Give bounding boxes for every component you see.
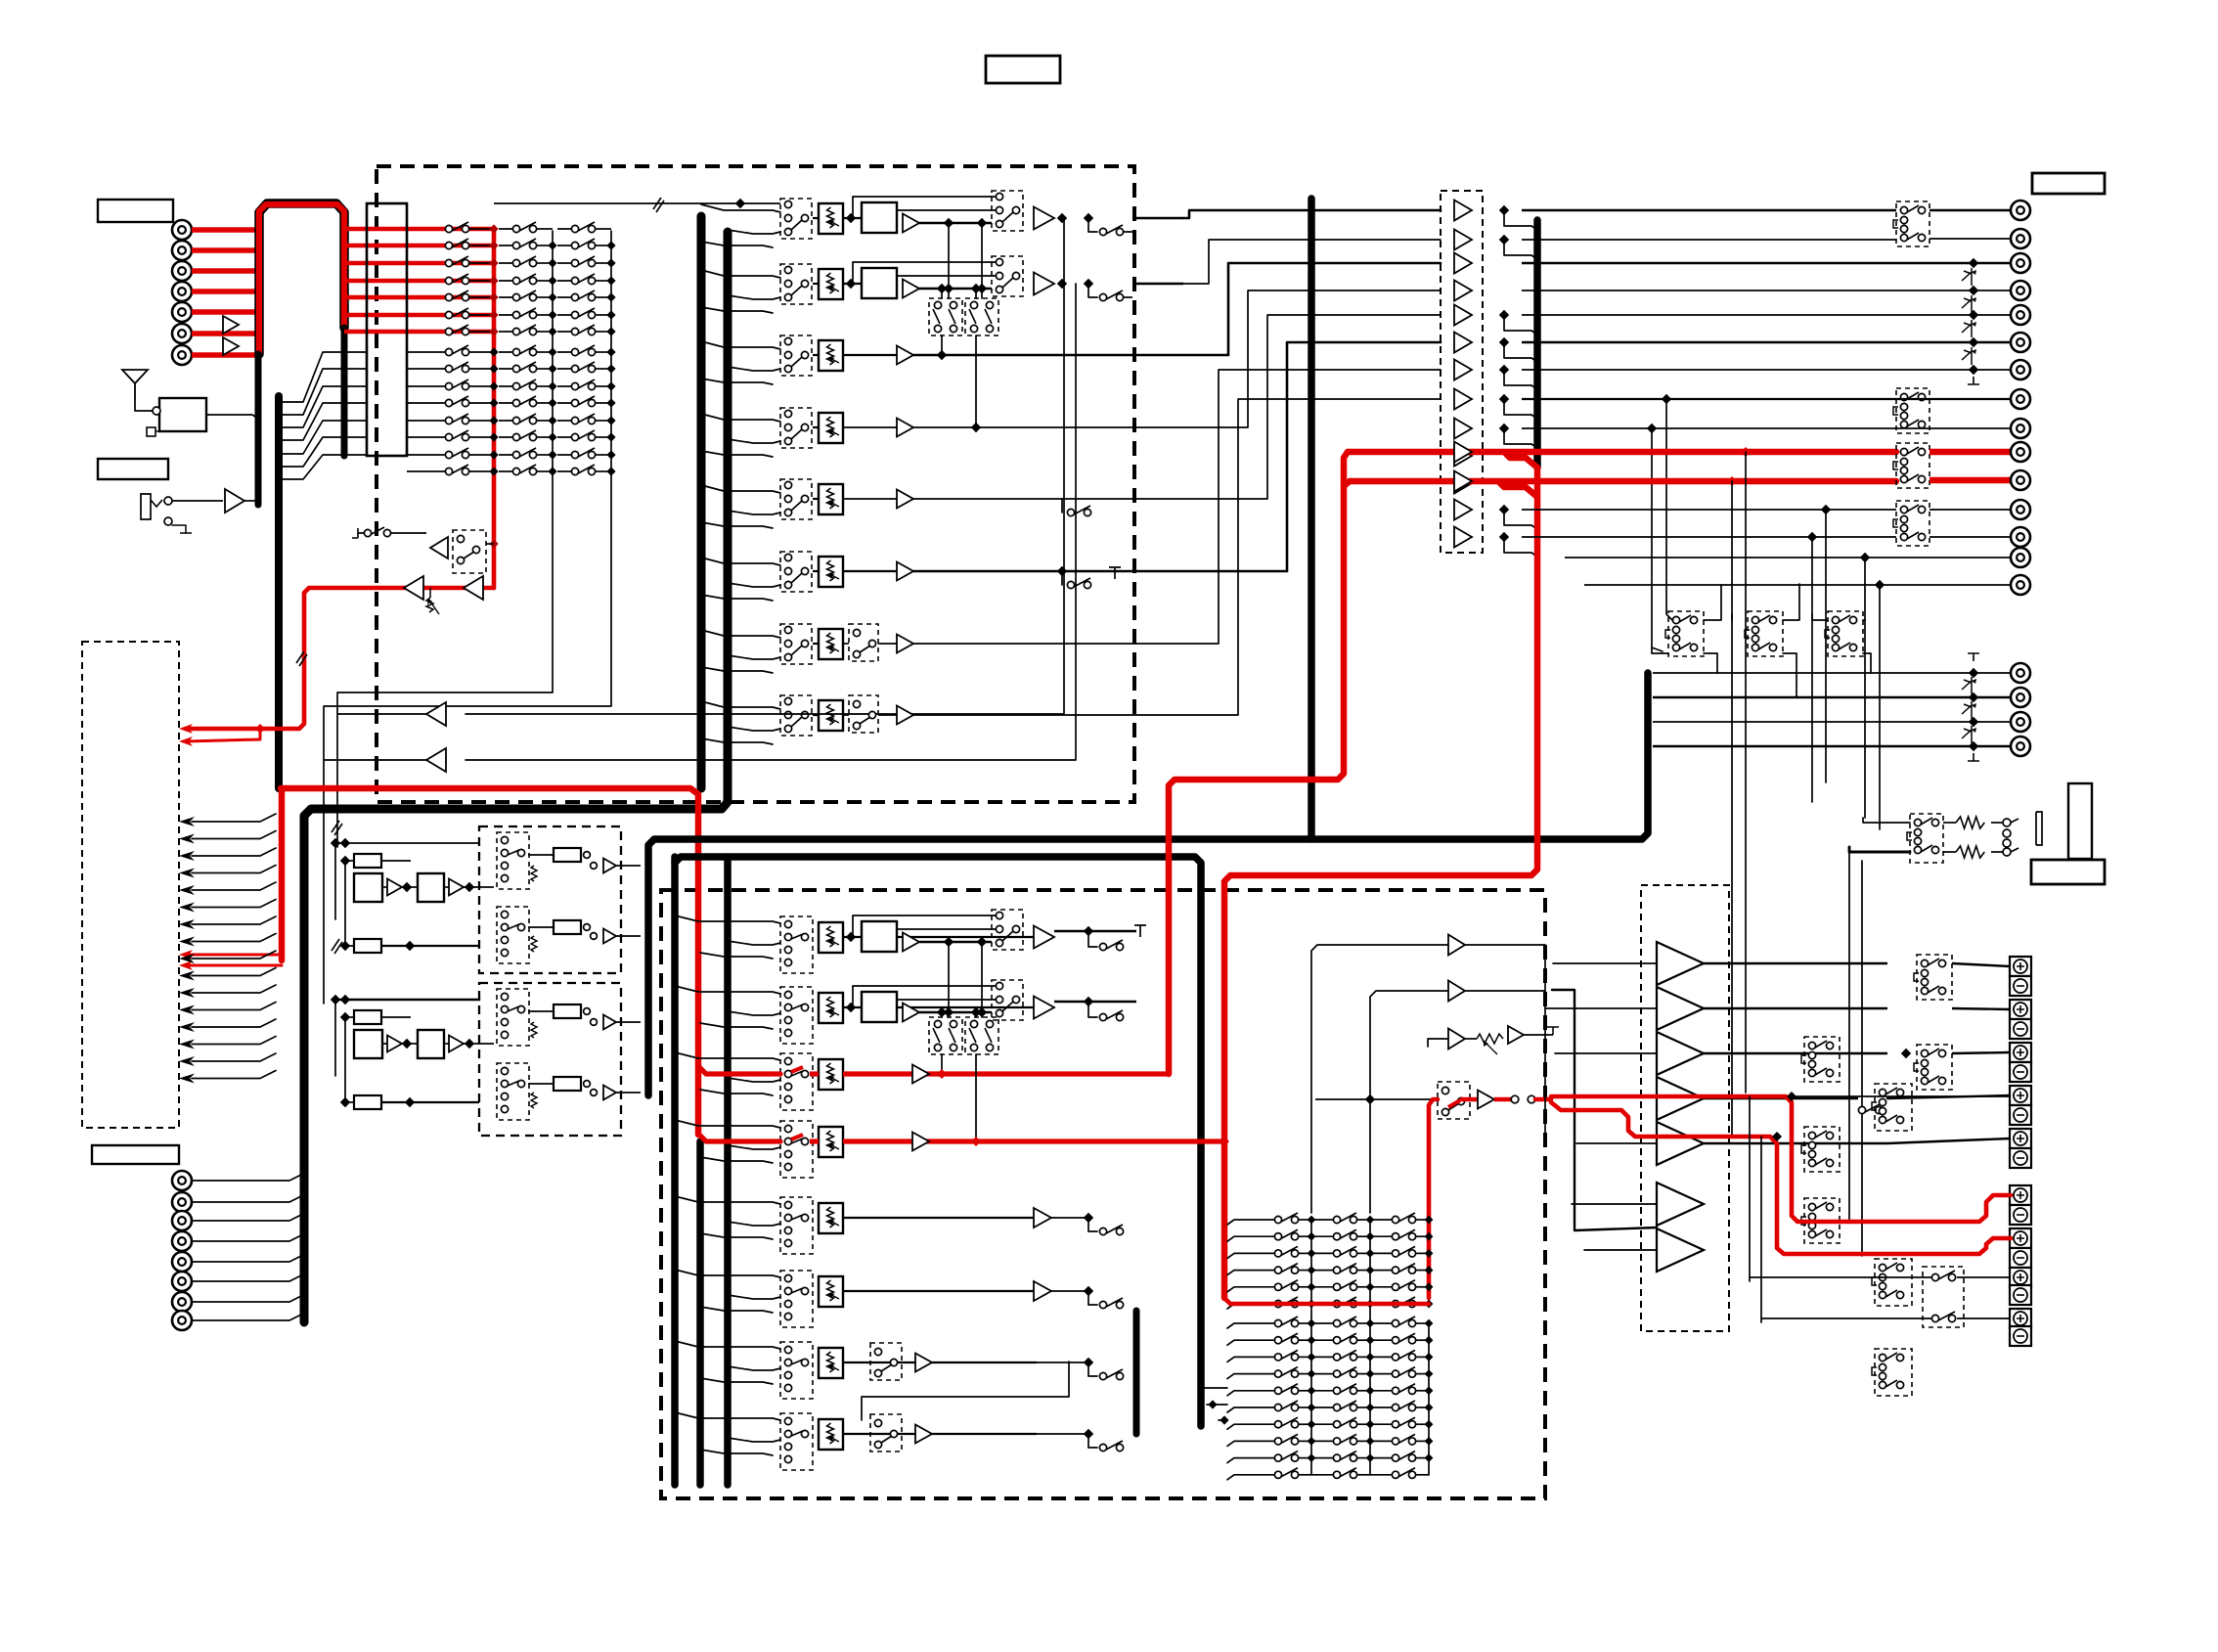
vert tap row9 <box>1652 428 1663 651</box>
F feed line a <box>335 999 479 1002</box>
row6 mute node <box>1057 566 1067 576</box>
G matrix lead r1c2 <box>1370 1235 1392 1237</box>
row2 out node2 <box>1084 279 1093 289</box>
dashed enclosure buffer amp column <box>1441 191 1483 553</box>
G matrix switch r3c0 <box>1274 1267 1281 1273</box>
matrix column 1 switch row 6 <box>445 311 452 318</box>
speaker terminal 8 - <box>2010 1105 2031 1125</box>
bottom selector row 2 feed stubs <box>675 986 780 994</box>
G matrix lead r6c1 <box>1311 1423 1333 1425</box>
G matrix wire r9c1 <box>1357 1474 1370 1476</box>
bottom selector row 7 volume control <box>819 1348 843 1378</box>
dub switch pair 2 <box>965 298 998 335</box>
matrix column 2 switch row 15 <box>499 470 516 472</box>
buffer 9 output node <box>1499 424 1509 433</box>
phones wire a <box>1943 822 1956 824</box>
phones feed c <box>1879 825 1881 829</box>
output jack row 6 <box>2011 333 2030 352</box>
G row5 mute switch <box>1088 1218 1097 1231</box>
red wire sel out <box>1462 1097 1478 1102</box>
bt row wire 2 <box>1761 1318 1931 1322</box>
buffer amp column triangle 4 <box>1454 281 1472 301</box>
G matrix switch r9c0 <box>1274 1471 1281 1478</box>
bottom RCA jack 5 <box>172 1252 192 1272</box>
tap row14 down <box>1864 558 1866 818</box>
G row5 node <box>1084 1213 1093 1223</box>
row2 mute switch <box>1088 284 1097 297</box>
wire connector pin 10 to program bus <box>283 386 367 427</box>
dub node r4 <box>971 423 981 432</box>
phones drop 2 <box>1861 861 1863 1256</box>
wire sw to jack2 <box>1930 238 2011 240</box>
dub switch pair 1 <box>929 298 962 335</box>
G matrix wire r6c2 <box>1416 1423 1429 1425</box>
wire connector pin 13 to program bus <box>283 437 367 467</box>
F out circ 2 <box>584 924 591 931</box>
buffer amp column triangle 8 <box>1454 389 1472 410</box>
mid mute transistor 1 <box>1962 680 1972 690</box>
G matrix switch r2c2 <box>1392 1354 1398 1361</box>
wire sw to jack13 <box>1930 536 2011 538</box>
red record bus vertical <box>492 229 497 588</box>
G matrix wire r8c1 <box>1357 1457 1370 1459</box>
red link from bottom row3 <box>1169 452 1348 1074</box>
slash marks on red run <box>296 651 307 666</box>
G matrix node r1 x1401 <box>1366 1232 1375 1241</box>
F out tri 1 <box>603 859 616 873</box>
speaker terminal 9 + <box>2010 1129 2031 1148</box>
tap row13 down <box>1811 537 1813 802</box>
G matrix node r1 x1341 <box>1308 1336 1316 1345</box>
matrix node col2 row 9 <box>548 364 556 373</box>
selector row 1 wire to volume <box>813 217 819 219</box>
tape-out buffer 1 <box>426 702 446 726</box>
F wire low <box>345 945 354 947</box>
amp out wire 4 <box>1704 1097 1858 1099</box>
matrix node col3 row 5 <box>606 292 615 301</box>
row2 top riser <box>852 262 854 282</box>
row2 buffer <box>903 280 919 298</box>
bus from top-right <box>1308 199 1315 839</box>
G row2 line amp <box>1034 997 1054 1019</box>
amp out wire 5 <box>1704 1142 1887 1144</box>
mic jack <box>141 494 162 519</box>
wire row8 to jack <box>1522 398 2011 400</box>
G matrix lead r7c2 <box>1370 1440 1392 1442</box>
matrix node col1 row 10 <box>489 381 498 390</box>
bottom selector row 5 feed stubs <box>675 1196 780 1204</box>
G matrix switch r0c1 <box>1333 1216 1340 1223</box>
G matrix stub r0 <box>1227 1323 1274 1328</box>
bottom selector row 7 out wire <box>843 1362 1037 1363</box>
mid jack node 3 <box>1969 717 1978 727</box>
bottom jack wire 2 <box>192 1196 301 1202</box>
bottom selector row 6 feed stubs <box>675 1270 780 1277</box>
wire selector row 2 to buffer 2 <box>1183 240 1441 284</box>
matrix column 1 switch row 10 <box>407 385 449 387</box>
G dub wires <box>948 942 950 1017</box>
matrix node col2 row 11 <box>548 398 556 407</box>
low selector b <box>1875 1259 1912 1306</box>
mute chain tbar <box>1968 377 1979 384</box>
G matrix wire r3c0 <box>1299 1270 1311 1272</box>
row6 amp <box>897 562 913 581</box>
G row2 out wire <box>1054 1001 1136 1004</box>
G dub node r4 <box>971 1137 981 1146</box>
red arrow DSP a <box>179 950 193 960</box>
phones drop <box>1848 852 1850 1223</box>
G dub node 1 <box>937 1007 947 1017</box>
G row8 amp <box>915 1425 932 1444</box>
amp feed 2 <box>1545 1007 1657 1009</box>
matrix node col2 row 10 <box>548 381 556 390</box>
relay staircase d <box>1812 614 1828 620</box>
G matrix switch r5c1 <box>1333 1404 1340 1410</box>
G matrix wire r6c1 <box>1357 1423 1370 1425</box>
F node mid2 <box>465 1039 474 1049</box>
buffer 7 jog to bus <box>1504 370 1537 389</box>
matrix node col3 row 14 <box>606 450 615 459</box>
G sub amp 4 <box>1508 1026 1524 1044</box>
G matrix node r5 x1401 <box>1366 1300 1375 1309</box>
matrix column 2 switch row 2 <box>499 245 516 246</box>
G matrix switch r1c0 <box>1274 1337 1281 1344</box>
G row1 out wire <box>1054 930 1136 933</box>
G row2 proc box <box>862 992 897 1022</box>
output jack row 1 <box>2011 201 2030 220</box>
G matrix node r6 x1461 <box>1425 1420 1434 1429</box>
speaker terminal 2 - <box>2010 976 2031 996</box>
selector row 8 feed stubs <box>701 701 780 709</box>
G matrix lead r3c1 <box>1311 1373 1333 1375</box>
matrix column 1 switch row 12 <box>407 420 449 422</box>
G matrix stub r1 <box>1227 1340 1274 1345</box>
G matrix wire r5c1 <box>1357 1406 1370 1408</box>
G matrix lower feed c <box>1219 1419 1227 1421</box>
power amp 3 <box>1657 1032 1704 1075</box>
G matrix switch r8c0 <box>1274 1454 1281 1461</box>
G matrix node r8 x1341 <box>1308 1453 1316 1462</box>
G matrix wire r3c2 <box>1416 1373 1429 1375</box>
G matrix switch r4c1 <box>1333 1283 1340 1290</box>
buffer 7 output node <box>1499 365 1509 375</box>
bottom selector row 1 input selector <box>780 916 813 973</box>
label box (top-right) <box>2032 173 2105 194</box>
RCA input jack J6 <box>172 324 192 343</box>
G matrix wire r1c1 <box>1357 1235 1370 1237</box>
row8 aux switch <box>849 695 878 733</box>
matrix node col1 row 4 <box>489 276 498 285</box>
row1 out node <box>1057 213 1067 223</box>
selector row 1 volume control <box>819 203 843 234</box>
matrix node col3 row 4 <box>606 276 615 285</box>
F out circ 1 <box>584 852 591 859</box>
bottom selector row 7 input selector <box>780 1342 813 1399</box>
G matrix switch r1c0 <box>1274 1233 1281 1240</box>
wire connector pin 12 to program bus <box>283 421 367 454</box>
selector row 6 feed stubs <box>701 558 780 565</box>
G matrix node r2 x1461 <box>1425 1249 1434 1258</box>
row7 wire in <box>843 643 849 645</box>
bottom RCA jack 2 <box>172 1192 192 1212</box>
G matrix wire r0c0 <box>1299 1322 1311 1324</box>
mid jack node 4 <box>1969 741 1978 751</box>
tbar <box>352 528 358 538</box>
selector row 4 volume control <box>819 413 843 443</box>
matrix column 2 switch row 14 <box>499 454 516 456</box>
bottom selector row 2 volume control <box>819 993 843 1023</box>
DSP channel arrow 6 <box>179 903 195 913</box>
output jack row 4 <box>2011 281 2030 300</box>
G matrix node r3 x1461 <box>1425 1266 1434 1274</box>
G line amp r1 <box>1448 935 1465 956</box>
matrix column 1 switch row 7 <box>445 328 452 335</box>
amp out sw4 <box>1858 1106 1865 1113</box>
matrix column 2 switch row 12 <box>499 420 516 422</box>
mic preamp A3 <box>225 489 244 513</box>
black vertical to bt2 <box>1760 1137 1762 1318</box>
mute node 7 <box>1969 365 1978 375</box>
F out tri 2 <box>603 929 616 944</box>
G matrix node r3 x1341 <box>1308 1266 1316 1274</box>
bottom selector row 5 input selector <box>780 1197 813 1254</box>
DSP channel wire 4 <box>192 866 276 873</box>
amp feed 3 <box>1555 1052 1657 1054</box>
mid mute tbar top <box>1968 653 1979 661</box>
output jack row 7 <box>2011 360 2030 380</box>
speaker terminal 7 + <box>2010 1086 2031 1105</box>
monitor buffer amp left 1 <box>404 576 423 600</box>
B feed elbow <box>1552 990 1657 1230</box>
tape-out buffer 2 <box>426 748 446 772</box>
label box (top-center) <box>986 56 1060 83</box>
relay wiring low c <box>1863 653 1871 673</box>
mute transistor 3 <box>1962 271 1972 281</box>
G matrix switch r3c2 <box>1392 1370 1398 1377</box>
speaker terminal 15 + <box>2010 1268 2031 1287</box>
F sub selector 2 <box>497 907 529 963</box>
G tbar row1 <box>1134 925 1146 937</box>
G row5 wire out <box>1051 1217 1088 1219</box>
G row1 proc box <box>862 921 897 952</box>
G row7 mute switch <box>1088 1362 1097 1376</box>
G matrix wire r2c2 <box>1416 1252 1429 1254</box>
dashed enclosure main selector block <box>377 166 1134 802</box>
G matrix lead r1c1 <box>1311 1339 1333 1341</box>
RCA input jack J3 <box>172 261 192 281</box>
program bus A vertical (top) <box>697 216 706 788</box>
F out box 2 <box>554 1077 581 1091</box>
G row1 top riser <box>852 915 854 935</box>
matrix column 3 switch row 9 <box>557 368 575 370</box>
row2 node <box>846 279 856 289</box>
G matrix lead r5c2 <box>1370 1406 1392 1408</box>
F out box 2 <box>554 920 581 934</box>
F wire down1 <box>334 1000 336 1076</box>
bottom selector row 6 input selector <box>780 1271 813 1327</box>
wire selector row 7 to buffer 7 <box>1134 370 1441 644</box>
wire connector pin 14 to program bus <box>283 455 367 479</box>
phones switch box <box>1910 814 1943 863</box>
red path B <box>1551 1102 2011 1254</box>
selector row 2 input selector switch <box>780 264 812 304</box>
matrix node col2 row 8 <box>548 347 556 356</box>
selector row 4 wire to volume <box>813 426 819 428</box>
red wire jack J3 to input bus <box>192 268 257 274</box>
row1 top riser <box>852 197 854 216</box>
red arrow DSP b <box>179 960 193 970</box>
G matrix lead r2c2 <box>1370 1356 1392 1358</box>
G matrix node r2 x1461 <box>1425 1353 1434 1362</box>
phones resistor a <box>1956 817 1984 828</box>
tuner AM loop <box>147 427 155 436</box>
buffer amp column triangle 2 <box>1454 230 1472 250</box>
mic ground stub <box>172 525 186 533</box>
G row5 amp <box>1034 1208 1051 1228</box>
amp feed 1 <box>1553 962 1657 964</box>
relay staircase e <box>1863 619 1865 621</box>
G row7 node <box>1084 1358 1093 1367</box>
G matrix node r4 x1401 <box>1366 1282 1375 1291</box>
row6 mute switch <box>1061 571 1063 585</box>
bottom RCA jack 6 <box>172 1272 192 1291</box>
G matrix node r8 x1401 <box>1366 1453 1375 1462</box>
power amp 5 <box>1657 1122 1704 1165</box>
G matrix wire r4c0 <box>1299 1390 1311 1392</box>
DSP channel wire 14 <box>192 1037 276 1045</box>
wire rec out to bus <box>486 543 494 545</box>
buffer 6 jog to bus <box>1504 342 1537 362</box>
G row2 node <box>846 1003 856 1012</box>
dashed enclosure power amp block <box>1641 885 1729 1331</box>
bottom RCA jack 3 <box>172 1211 192 1230</box>
bottom jack wire 4 <box>192 1235 301 1241</box>
matrix node col3 row 10 <box>606 381 615 390</box>
DSP channel wire 11 <box>192 985 276 993</box>
bottom selector row 5 out wire <box>843 1217 1037 1219</box>
main bus to bottom selector (right) <box>724 857 732 1485</box>
tape-out tap 2 <box>466 284 1076 760</box>
G matrix switch r6c1 <box>1333 1421 1340 1428</box>
matrix column 3 switch row 1 <box>557 228 575 230</box>
RCA input jack J2 <box>172 241 192 260</box>
matrix node col1 row 7 <box>489 327 498 335</box>
buffer amp column triangle 1 <box>1454 201 1472 221</box>
row2 processor box <box>862 268 897 298</box>
red sel amp <box>1478 1091 1494 1109</box>
selector row 6 volume control <box>819 557 843 587</box>
G matrix node r0 x1401 <box>1366 1216 1375 1225</box>
row2 wire2 <box>919 288 992 290</box>
G matrix node r1 x1461 <box>1425 1336 1434 1345</box>
matrix node col2 row 7 <box>548 327 556 335</box>
row1 wire2 <box>919 222 992 224</box>
F wire down2 <box>344 1017 346 1102</box>
output jack row 3 <box>2011 253 2030 273</box>
matrix column 1 switch row 3 <box>445 259 452 266</box>
G matrix wire r2c1 <box>1357 1252 1370 1254</box>
input bus black continuation <box>341 328 348 456</box>
G row2 top riser <box>852 986 854 1005</box>
mute transistor 4 <box>1962 298 1972 308</box>
speaker terminal 4 - <box>2010 1019 2031 1039</box>
speaker terminal 12 - <box>2010 1205 2031 1225</box>
bottom selector row 2 input selector <box>780 987 813 1044</box>
buffer amp column triangle 12 <box>1454 500 1472 520</box>
F out circ 2 <box>584 1081 591 1088</box>
DSP channel arrow 15 <box>179 1056 195 1066</box>
output jack row 12 <box>2011 500 2030 519</box>
G matrix stub r0 <box>1227 1220 1274 1225</box>
relay wiring low a <box>1704 653 1717 673</box>
phones wire b <box>1943 851 1956 853</box>
matrix column 2 switch row 6 <box>499 314 516 316</box>
matrix column 3 switch row 15 <box>557 470 575 472</box>
tap row11 down <box>1731 481 1733 1135</box>
row5 wire out <box>913 498 1134 500</box>
out wire t5 <box>1887 1139 2010 1143</box>
matrix column 1 switch row 8 <box>407 351 449 353</box>
buffer 13 jog to bus <box>1504 537 1537 557</box>
matrix column 1 switch row 13 <box>407 436 449 438</box>
red up from matrix <box>1429 1099 1438 1298</box>
G matrix node r3 x1461 <box>1425 1369 1434 1378</box>
out wire t3 <box>1952 1052 2010 1053</box>
matrix node col3 row 13 <box>606 432 615 441</box>
G matrix switch r0c2 <box>1392 1319 1398 1326</box>
G matrix node r6 x1401 <box>1366 1420 1375 1429</box>
F out box 1 <box>554 848 581 862</box>
G row1 out node <box>1084 926 1093 936</box>
G matrix stub r6 <box>1227 1424 1274 1429</box>
G matrix wire r2c1 <box>1357 1356 1370 1358</box>
system connector block <box>367 203 407 456</box>
black program bus left <box>275 396 283 788</box>
DSP channel wire 9 <box>192 951 276 959</box>
DSP channel wire 6 <box>192 900 276 908</box>
matrix column 3 switch row 7 <box>557 331 575 333</box>
row2 mid line <box>897 275 998 277</box>
G matrix switch r1c2 <box>1392 1233 1398 1240</box>
G matrix wire r2c0 <box>1299 1252 1311 1254</box>
F out tri 2 <box>603 1086 616 1100</box>
mid selector boxes a <box>1804 1037 1840 1082</box>
G matrix lead r6c2 <box>1370 1423 1392 1425</box>
row5 wire in <box>843 498 897 500</box>
F proc box 2 <box>418 873 444 902</box>
bottom selector row 4 volume control <box>819 1127 843 1157</box>
right jack selector red <box>1896 443 1930 488</box>
F node a2 <box>340 995 350 1005</box>
bottom selector row 4 red feed <box>698 1134 780 1141</box>
amp out sw 3 <box>1917 1045 1952 1090</box>
amp out wire 3 <box>1704 1052 1887 1054</box>
mute transistor 6 <box>1962 350 1972 360</box>
G matrix lead r0c2 <box>1370 1322 1392 1324</box>
row14 node <box>1860 553 1870 562</box>
matrix column 3 switch row 6 <box>557 314 575 316</box>
G matrix node r5 x1341 <box>1308 1404 1316 1412</box>
label box (right lower) <box>2031 860 2105 884</box>
F node low2 <box>405 941 415 951</box>
dub node r3 <box>937 350 947 360</box>
row2 junction a <box>944 284 954 293</box>
buffer amp column triangle 11 <box>1454 473 1472 494</box>
G matrix wire r4c1 <box>1357 1390 1370 1392</box>
G row6 node <box>1084 1286 1093 1296</box>
buffer 5 output node <box>1499 310 1509 320</box>
G matrix wire r0c0 <box>1299 1219 1311 1221</box>
